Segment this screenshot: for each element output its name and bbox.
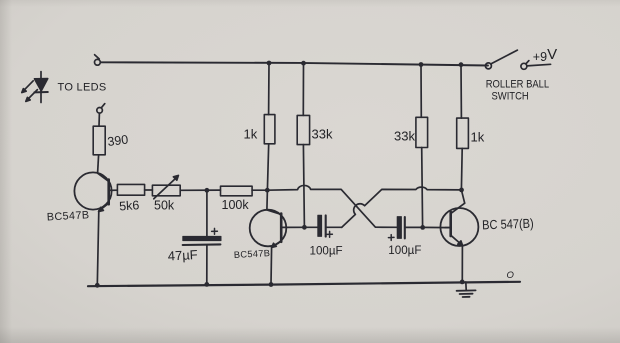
transistor Q3 BC547(B) bbox=[440, 203, 478, 246]
svg-text:O: O bbox=[507, 270, 515, 281]
svg-text:33k: 33k bbox=[312, 127, 333, 142]
svg-text:BC547B: BC547B bbox=[234, 248, 271, 260]
wire: R1 to Q1 collector bbox=[98, 155, 99, 173]
resistor R7 33k bbox=[416, 117, 428, 147]
transistor Q1 BC547B bbox=[74, 172, 117, 211]
junction: rail / R8 bbox=[459, 62, 464, 67]
junction: C1 / 0V rail bbox=[204, 282, 209, 287]
svg-text:5k6: 5k6 bbox=[119, 198, 140, 213]
wire: 0V bottom rail bbox=[88, 282, 520, 286]
junction: node A (R3/R4/C1) bbox=[205, 188, 210, 193]
svg-text:1k: 1k bbox=[244, 127, 258, 142]
wire: Q2 base lead bbox=[286, 226, 304, 228]
resistor R5 1k bbox=[264, 115, 275, 144]
resistor R8 1k bbox=[457, 118, 469, 148]
wire: R6 to Q2 base node (passes under hop) bbox=[303, 145, 304, 228]
junction: Q3 collector node bbox=[459, 188, 464, 193]
wire: R3 to R4 through node A bbox=[180, 189, 220, 191]
wire: Q3 emitter to 0V rail bbox=[461, 246, 463, 282]
resistor R2 5k6 bbox=[117, 184, 144, 195]
capacitor C2 100µF (electrolytic) bbox=[304, 215, 341, 237]
wire: rail to R6 bbox=[302, 63, 304, 115]
wire: rail to R5 bbox=[268, 63, 270, 115]
wire: Q2 emitter to 0V rail bbox=[270, 246, 273, 284]
junction: rail / R7 bbox=[419, 62, 424, 67]
junction: rail / R6 bbox=[301, 61, 306, 66]
capacitor C3 100µF (electrolytic) bbox=[388, 217, 422, 241]
svg-text:BC547B: BC547B bbox=[47, 209, 90, 223]
wire: rail to R7 bbox=[420, 65, 422, 118]
LED D1 (indicator, TO LEDS) bbox=[22, 72, 48, 103]
svg-text:SWITCH: SWITCH bbox=[492, 91, 529, 103]
resistor R6 33k bbox=[297, 115, 309, 144]
wire: C2 to Q3 collector node (cross-coupling, bump at crossing, hop over R7 wire) bbox=[342, 187, 462, 227]
svg-text:BC 547(B): BC 547(B) bbox=[482, 216, 534, 233]
wire: rail to R8 bbox=[460, 65, 462, 118]
resistor R4 100k bbox=[221, 186, 253, 196]
transistor Q2 BC547B bbox=[250, 210, 287, 248]
svg-text:TO LEDS: TO LEDS bbox=[58, 82, 107, 94]
svg-text:100µF: 100µF bbox=[310, 245, 343, 258]
wire: R7 to Q3 base node (passes under hop) bbox=[421, 148, 424, 228]
wire: R5 to node B bbox=[267, 144, 268, 190]
switch S1 (roller ball switch) bbox=[485, 50, 550, 69]
svg-text:33k: 33k bbox=[394, 129, 415, 144]
svg-text:ROLLER BALL: ROLLER BALL bbox=[486, 78, 550, 90]
svg-text:50k: 50k bbox=[154, 199, 175, 213]
wire: node to Q3 collector bbox=[461, 190, 464, 203]
svg-text:1k: 1k bbox=[471, 130, 485, 145]
wire: node B to C3 (cross-coupling, hop over R6 wire) bbox=[267, 185, 397, 227]
junction: rail / R5 bbox=[267, 61, 272, 66]
svg-text:100µF: 100µF bbox=[388, 244, 421, 257]
wire: node B to Q2 collector bbox=[266, 190, 269, 210]
junction: Q2 base / R6 / C2 bbox=[302, 225, 307, 230]
wire: R2 to R3 bbox=[145, 189, 153, 191]
capacitor C1 47µF (electrolytic, vertical) bbox=[183, 192, 221, 284]
junction: node B (R5/R4/Q2 collector) bbox=[265, 188, 270, 193]
wire: terminal to R1 bbox=[98, 113, 100, 126]
junction: C3 / R7 / Q3 base bbox=[420, 225, 425, 230]
node: open terminal above R1 (LED return) bbox=[97, 104, 105, 114]
wire: R4 to node B bbox=[252, 189, 267, 191]
junction: Q1 emitter / 0V rail bbox=[95, 283, 100, 288]
node: top rail open terminal (to LEDs) bbox=[95, 55, 101, 65]
junction: Q3 emitter / 0V rail bbox=[460, 280, 465, 285]
wire: +9V top rail bbox=[101, 62, 489, 65]
resistor R3 50k (variable) bbox=[152, 175, 180, 198]
ground symbol bbox=[457, 282, 476, 297]
wire: R8 to Q3 collector node bbox=[460, 148, 463, 189]
junction: Q2 emitter / 0V rail bbox=[269, 282, 274, 287]
svg-text:47µF: 47µF bbox=[167, 247, 198, 264]
wire: to Q3 base bbox=[423, 226, 450, 228]
resistor R1 390 bbox=[93, 126, 105, 155]
wire: Q1 emitter to 0V rail bbox=[97, 211, 99, 285]
svg-text:100k: 100k bbox=[222, 198, 250, 212]
svg-text:390: 390 bbox=[107, 133, 129, 149]
